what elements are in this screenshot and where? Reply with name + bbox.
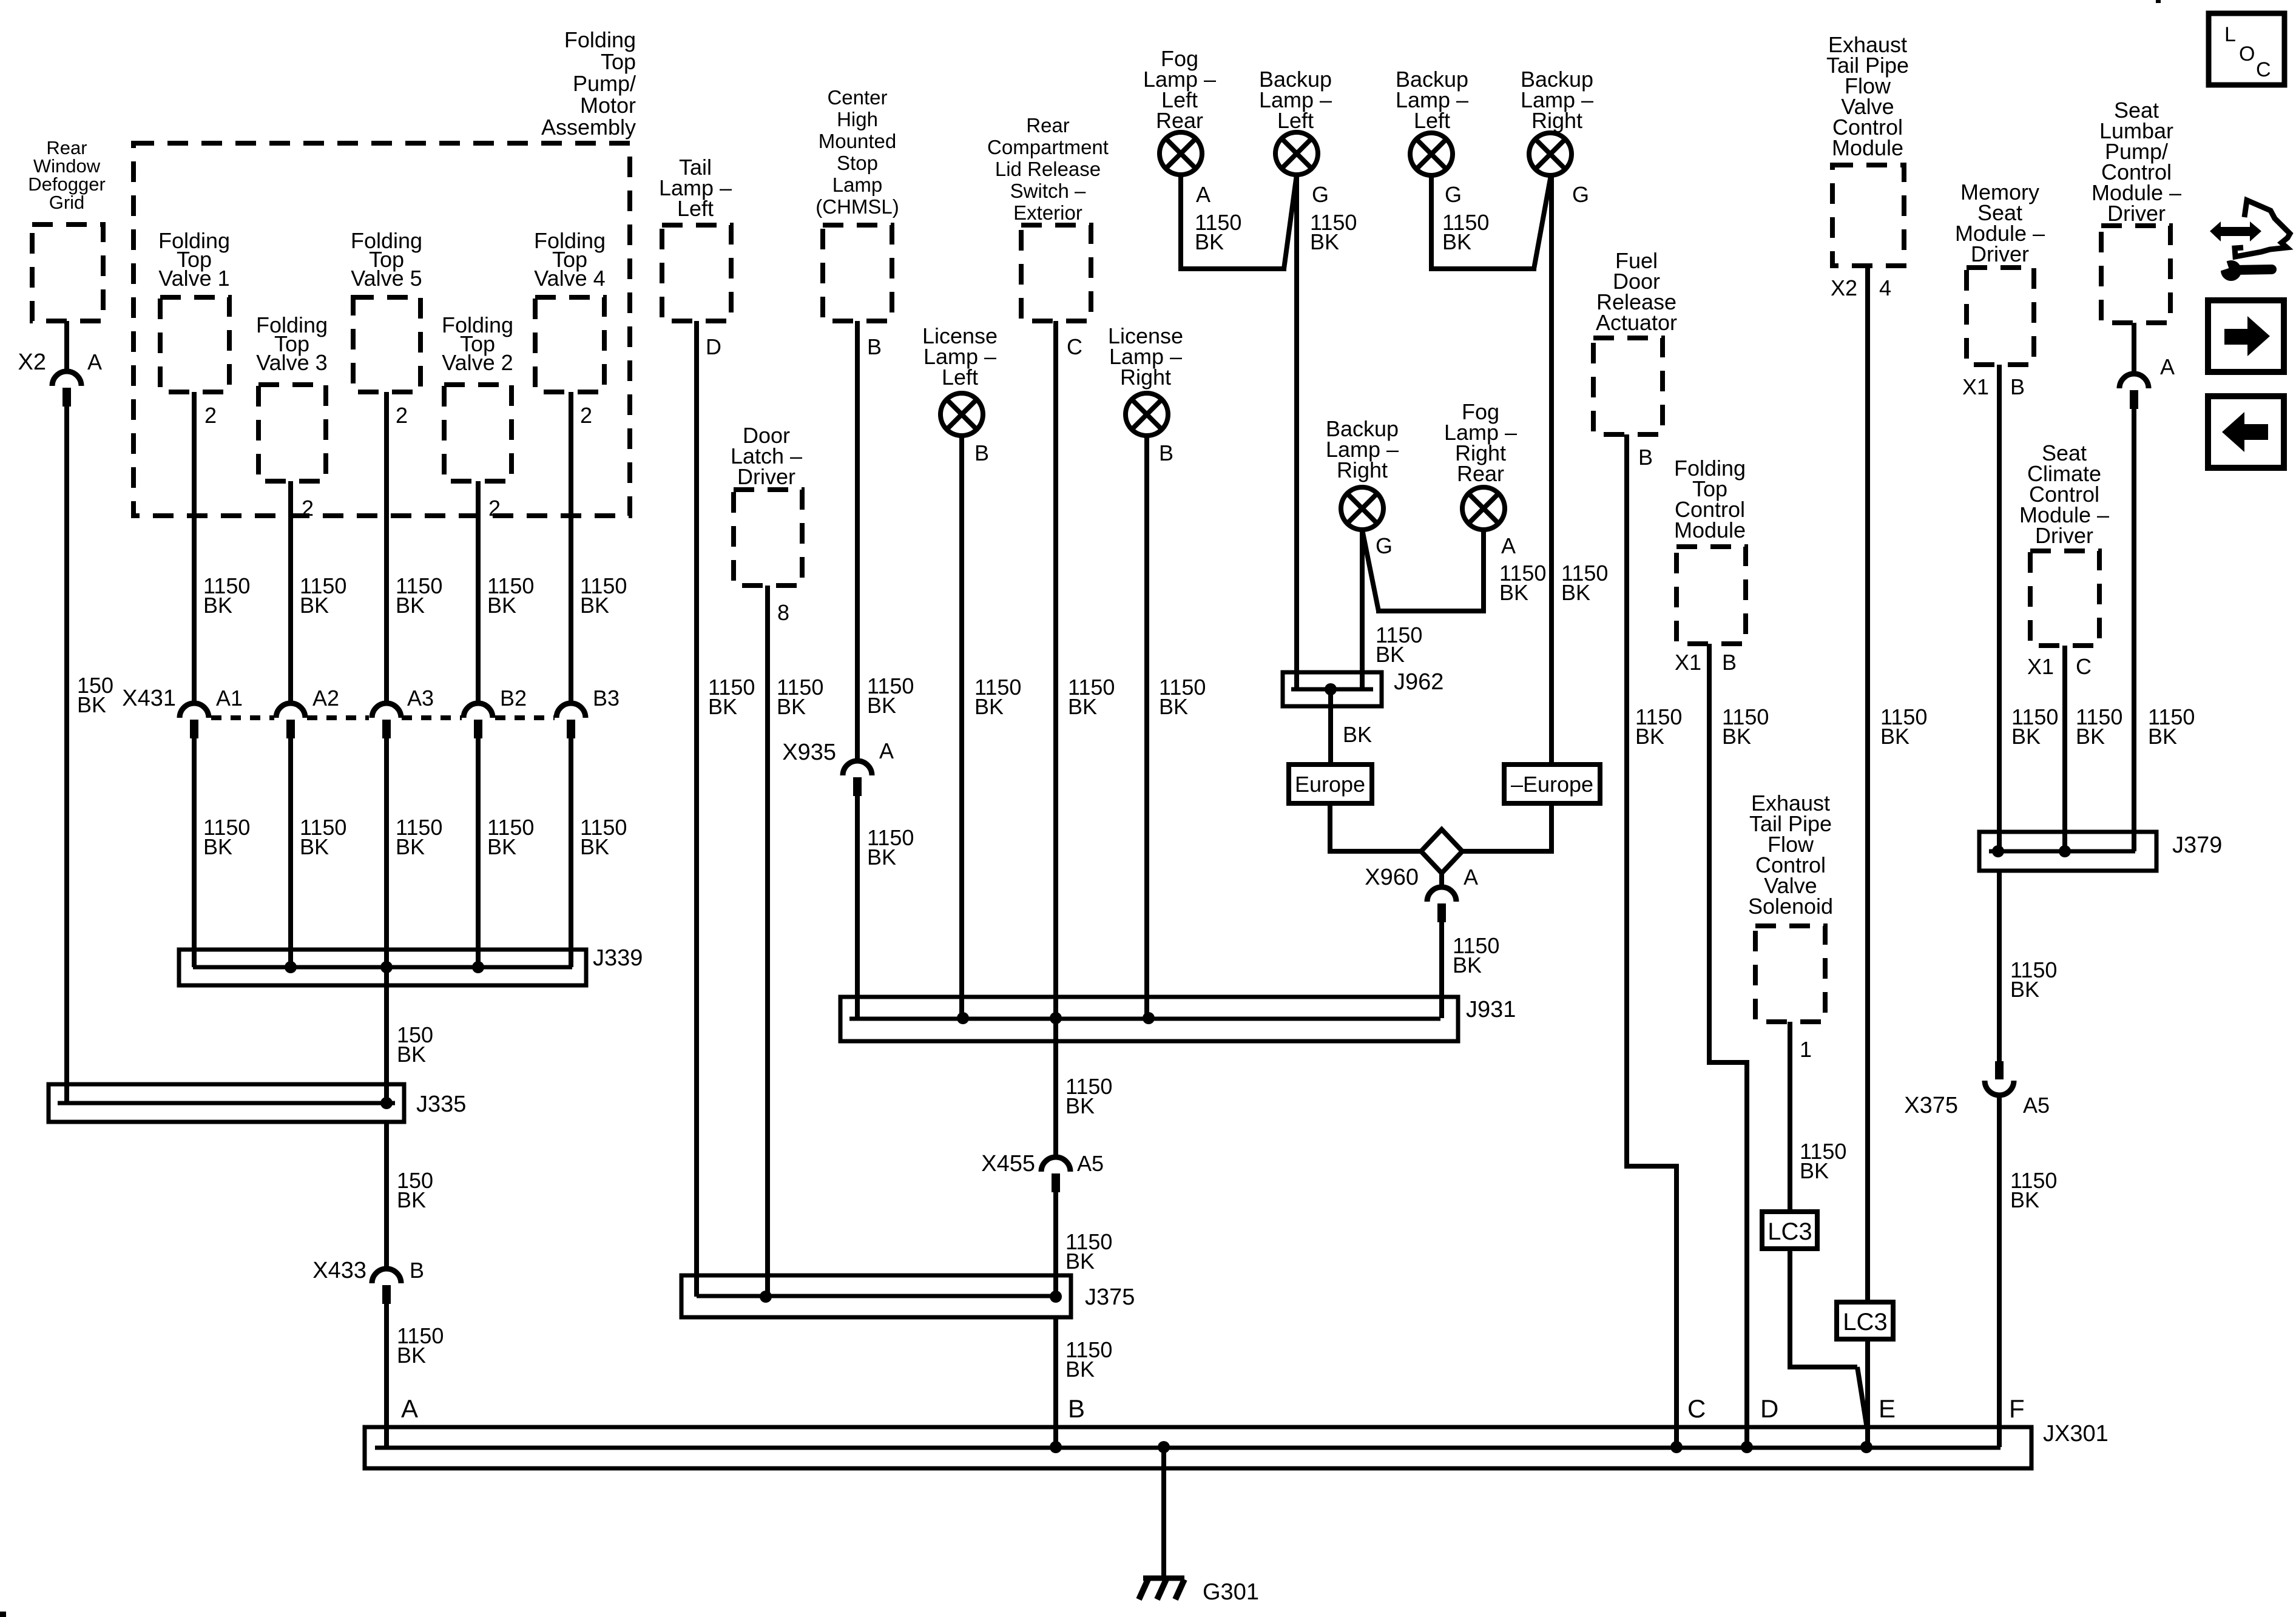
wire lumbar connector to J379 xyxy=(2132,408,2136,851)
connector X935 pin A xyxy=(782,738,894,796)
wire label 1150 BK below X935 xyxy=(867,825,914,869)
svg-text:BK: BK xyxy=(1442,229,1471,254)
lamp Backup Lamp - Left xyxy=(1275,132,1318,175)
wire labels 1150 BK above X431 xyxy=(203,573,627,618)
svg-text:J379: J379 xyxy=(2172,832,2222,858)
wire backup right2 to fog link xyxy=(1362,530,1486,611)
junction dots J339 xyxy=(285,961,484,973)
Backup Lamp - Left label xyxy=(1259,67,1332,133)
svg-text:B: B xyxy=(1722,650,1737,675)
svg-text:C: C xyxy=(1067,334,1082,359)
svg-text:1: 1 xyxy=(1800,1037,1812,1062)
connector X431 pin A1 xyxy=(180,686,243,738)
svg-text:Motor: Motor xyxy=(580,93,636,118)
svg-text:BK: BK xyxy=(1376,642,1405,667)
wire fog left rear elbow xyxy=(1178,175,1297,269)
inline connector LC3 on solenoid wire xyxy=(1762,1212,1817,1249)
svg-text:Stop: Stop xyxy=(837,152,878,174)
svg-text:BK: BK xyxy=(974,694,1004,719)
fog lamp left rear pin A xyxy=(1196,182,1210,207)
svg-text:Mounted: Mounted xyxy=(819,130,896,152)
splice J335 xyxy=(49,1084,466,1122)
connector X375 pin A5 xyxy=(1904,1061,2050,1118)
wire label BK J962 xyxy=(1343,722,1372,747)
svg-text:Actuator: Actuator xyxy=(1596,310,1677,335)
svg-text:Solenoid: Solenoid xyxy=(1748,894,1833,919)
wire backup right2 to J962 xyxy=(1360,530,1365,689)
bus letter E xyxy=(1879,1394,1896,1423)
Seat Climate Control Module box xyxy=(2030,551,2099,646)
svg-text:8: 8 xyxy=(777,600,789,625)
svg-text:BK: BK xyxy=(580,834,609,859)
wire LC3 to JX301-E xyxy=(1788,1249,1867,1428)
wire X935 to J931 xyxy=(855,795,860,1018)
svg-text:BK: BK xyxy=(300,834,329,859)
wire lumbar to connector xyxy=(2132,323,2136,374)
bus letter D xyxy=(1760,1394,1778,1423)
svg-text:Pump/: Pump/ xyxy=(573,71,636,96)
Folding Top Valve 2 box xyxy=(444,385,512,481)
svg-text:B: B xyxy=(1638,445,1653,470)
svg-text:Switch –: Switch – xyxy=(1010,180,1086,202)
-Europe option box xyxy=(1504,765,1600,803)
lumbar pin A xyxy=(2160,354,2175,379)
wire label 1150 BK below X455 xyxy=(1065,1229,1112,1274)
svg-text:J335: J335 xyxy=(416,1092,466,1117)
svg-text:X960: X960 xyxy=(1365,865,1419,890)
svg-text:J931: J931 xyxy=(1466,997,1516,1022)
svg-text:B: B xyxy=(867,334,882,359)
Center High Mounted Stop Lamp label xyxy=(815,86,899,218)
svg-text:A: A xyxy=(1464,865,1478,890)
svg-text:X433: X433 xyxy=(312,1258,366,1283)
wire J962 to Europe box xyxy=(1328,689,1333,766)
svg-text:BK: BK xyxy=(1065,1249,1095,1274)
svg-text:A: A xyxy=(1501,533,1516,558)
wire label 150 BK defogger xyxy=(77,673,113,717)
svg-text:Left: Left xyxy=(1414,108,1450,133)
Exhaust Tail Pipe Flow Control Valve Solenoid label xyxy=(1748,791,1833,919)
back arrow box xyxy=(2208,396,2284,468)
wire valve3 to X431-A2 xyxy=(288,481,293,703)
svg-text:Right: Right xyxy=(1337,457,1388,482)
wire label 1150 BK fuel door xyxy=(1635,704,1682,749)
option diamond X960 xyxy=(1421,829,1462,873)
wire label 1150 BK backup left2 xyxy=(1442,210,1489,254)
wire label 1150 BK fog left rear xyxy=(1195,210,1241,254)
svg-text:D: D xyxy=(1760,1394,1778,1423)
svg-text:BK: BK xyxy=(397,1042,426,1067)
lid release switch pin C xyxy=(1067,334,1082,359)
wire label 1150 BK folding top module xyxy=(1722,704,1769,749)
connector X433 pin B xyxy=(312,1258,424,1304)
svg-text:BK: BK xyxy=(397,1187,426,1212)
Rear Window Defogger Grid label xyxy=(28,137,106,213)
splice J962 xyxy=(1283,669,1443,706)
svg-text:BK: BK xyxy=(867,845,896,869)
svg-text:BK: BK xyxy=(2011,724,2041,749)
bus letter F xyxy=(2009,1394,2025,1423)
svg-text:BK: BK xyxy=(1800,1158,1829,1183)
valve 2 pin 2 xyxy=(488,496,501,521)
svg-text:BK: BK xyxy=(203,593,232,618)
svg-text:G: G xyxy=(1376,533,1393,558)
svg-text:2: 2 xyxy=(488,496,501,521)
svg-text:G: G xyxy=(1572,182,1589,207)
door latch pin 8 xyxy=(777,600,789,625)
svg-text:C: C xyxy=(2076,654,2092,679)
svg-text:Valve 3: Valve 3 xyxy=(256,350,327,375)
svg-text:High: High xyxy=(837,108,878,130)
lamp Fog Lamp - Right Rear xyxy=(1462,487,1505,530)
svg-text:LC3: LC3 xyxy=(1768,1218,1812,1245)
svg-text:X1: X1 xyxy=(2027,654,2054,679)
junction dots J931 xyxy=(957,1012,1155,1024)
wire exhaust module to JX301-E xyxy=(1865,266,1870,1447)
wire folding top module to JX301-D xyxy=(1707,644,1749,1447)
wire JX301 to ground xyxy=(1161,1447,1166,1578)
svg-text:X2: X2 xyxy=(1831,275,1857,300)
License Lamp - Right label xyxy=(1108,323,1183,390)
svg-text:G: G xyxy=(1312,182,1329,207)
wire X431-B3 to J339 xyxy=(569,738,573,967)
license lamp left pin B xyxy=(974,441,989,465)
svg-text:Right: Right xyxy=(1120,365,1171,390)
svg-text:BK: BK xyxy=(1195,229,1224,254)
forward arrow box xyxy=(2208,300,2284,372)
wire climate to J379 xyxy=(2062,646,2067,851)
svg-text:BK: BK xyxy=(1065,1093,1095,1118)
svg-text:BK: BK xyxy=(1499,580,1528,605)
svg-text:BK: BK xyxy=(2010,1187,2039,1212)
svg-text:Grid: Grid xyxy=(49,192,85,213)
svg-text:B2: B2 xyxy=(500,686,527,711)
bus letter B xyxy=(1068,1394,1085,1423)
Rear Compartment Lid Release Switch box xyxy=(1021,225,1091,321)
Fuel Door Release Actuator label xyxy=(1596,248,1677,335)
svg-text:X375: X375 xyxy=(1904,1093,1958,1118)
wire label 1150 BK memory seat xyxy=(2011,704,2058,749)
svg-text:BK: BK xyxy=(77,692,106,717)
svg-text:BK: BK xyxy=(396,834,425,859)
connector X431 pin B3 xyxy=(556,686,620,738)
wire license left to J931 xyxy=(959,436,964,1018)
svg-text:Compartment: Compartment xyxy=(987,136,1109,158)
splice J931 xyxy=(840,997,1516,1041)
Memory Seat Module - Driver label xyxy=(1955,180,2045,266)
svg-text:Exterior: Exterior xyxy=(1013,201,1082,224)
wire label 1150 BK door latch xyxy=(777,675,823,719)
wire X2 to J335 xyxy=(64,406,69,1103)
wire X433 to JX301-A xyxy=(384,1303,389,1447)
wire label 1150 BK license left xyxy=(974,675,1021,719)
svg-text:X1: X1 xyxy=(1675,650,1701,675)
svg-text:Left: Left xyxy=(1277,108,1314,133)
ground symbol G301 xyxy=(1139,1578,1259,1605)
svg-text:Lid Release: Lid Release xyxy=(995,158,1101,180)
license lamp right pin B xyxy=(1159,441,1173,465)
svg-text:B: B xyxy=(1159,441,1173,465)
svg-text:Driver: Driver xyxy=(737,464,795,489)
wire label 1150 BK X960 xyxy=(1453,933,1499,977)
svg-text:D: D xyxy=(706,334,721,359)
connector on lumbar wire xyxy=(2119,374,2149,409)
wire label 1150 BK below X375 xyxy=(2010,1168,2057,1212)
svg-text:Driver: Driver xyxy=(2107,201,2166,226)
svg-text:A5: A5 xyxy=(2023,1093,2050,1118)
svg-text:X431: X431 xyxy=(122,686,176,711)
svg-text:C: C xyxy=(2256,58,2271,81)
wire -Europe to X960 diamond xyxy=(1460,803,1554,851)
svg-text:Rear: Rear xyxy=(1457,461,1504,486)
svg-text:B: B xyxy=(1068,1394,1085,1423)
Rear Compartment Lid Release Switch - Exterior label xyxy=(987,114,1109,224)
wire defogger to X2 xyxy=(64,321,69,371)
svg-text:BK: BK xyxy=(580,593,609,618)
svg-text:BK: BK xyxy=(777,694,806,719)
svg-text:Module: Module xyxy=(1674,518,1746,542)
wire X431-A2 to J339 xyxy=(288,738,293,967)
svg-text:G301: G301 xyxy=(1203,1579,1259,1605)
svg-text:A: A xyxy=(401,1394,418,1423)
License Lamp - Left label xyxy=(922,323,998,390)
backup lamp left2 pin G xyxy=(1445,182,1462,207)
Seat Lumbar Pump/Control Module box xyxy=(2101,226,2170,323)
junction dots J375 xyxy=(760,1291,1062,1303)
wire label 1150 BK license right xyxy=(1159,675,1206,719)
svg-text:Top: Top xyxy=(601,49,636,74)
svg-text:Valve 4: Valve 4 xyxy=(534,266,605,291)
Exhaust Solenoid box xyxy=(1755,926,1825,1022)
wire label 1150 BK lid release xyxy=(1068,675,1115,719)
svg-text:Assembly: Assembly xyxy=(541,115,636,140)
tool/repair icon xyxy=(2210,200,2290,281)
svg-text:O: O xyxy=(2239,42,2255,66)
svg-text:Valve 1: Valve 1 xyxy=(158,266,229,291)
valve 1 pin 2 xyxy=(204,403,217,428)
svg-text:BK: BK xyxy=(1310,229,1339,254)
svg-text:2: 2 xyxy=(302,496,314,521)
svg-text:BK: BK xyxy=(1561,580,1590,605)
wire valve5 to X431-A3 xyxy=(384,392,389,703)
wire label 1150 BK lumbar xyxy=(2148,704,2195,749)
Europe option box xyxy=(1289,765,1372,803)
wire backup left2 elbow xyxy=(1429,175,1551,269)
svg-text:2: 2 xyxy=(580,403,592,428)
svg-text:X455: X455 xyxy=(981,1151,1035,1176)
svg-text:A2: A2 xyxy=(312,686,339,711)
svg-text:BK: BK xyxy=(1343,722,1372,747)
backup lamp left pin G xyxy=(1312,182,1329,207)
wire backup right to -Europe xyxy=(1549,175,1554,766)
wire J379 to X375 xyxy=(1997,871,2002,1061)
lamp License Lamp - Right xyxy=(1126,393,1168,436)
svg-text:X935: X935 xyxy=(782,740,836,765)
svg-text:Lamp: Lamp xyxy=(832,174,883,196)
svg-text:A: A xyxy=(87,349,102,374)
svg-text:BK: BK xyxy=(2148,724,2177,749)
solenoid pin 1 xyxy=(1800,1037,1812,1062)
svg-text:Valve 2: Valve 2 xyxy=(442,350,513,375)
wire lid release to J931 xyxy=(1053,321,1058,1018)
junction dot J962 xyxy=(1325,683,1337,695)
valve 4 pin 2 xyxy=(580,403,592,428)
Door Latch - Driver box xyxy=(734,490,802,586)
stray period bottom-left xyxy=(0,1612,6,1617)
svg-text:Folding: Folding xyxy=(564,27,636,52)
wire label 1150 BK above X375 xyxy=(2010,957,2057,1002)
lamp Backup Lamp - Right second xyxy=(1341,487,1383,530)
LOC legend box xyxy=(2209,13,2284,85)
connector X960 pin A xyxy=(1365,865,1478,922)
Backup Lamp - Right label xyxy=(1521,67,1593,133)
svg-text:A: A xyxy=(2160,354,2175,379)
svg-text:Left: Left xyxy=(942,365,978,390)
Folding Top Control Module box xyxy=(1676,547,1746,644)
Memory Seat Module box xyxy=(1967,268,2034,365)
svg-text:A5: A5 xyxy=(1077,1151,1104,1176)
wire label 1150 BK climate xyxy=(2076,704,2122,749)
svg-text:Driver: Driver xyxy=(1971,241,2029,266)
svg-text:A3: A3 xyxy=(407,686,434,711)
Folding Top Valve 2 label xyxy=(442,312,513,375)
folding top module pins X1 B xyxy=(1675,650,1737,675)
valve 5 pin 2 xyxy=(396,403,408,428)
Fuel Door Release Actuator box xyxy=(1593,338,1663,434)
wire X431-A1 to J339 xyxy=(192,738,197,967)
Folding Top Valve 5 box xyxy=(353,297,420,392)
svg-text:E: E xyxy=(1879,1394,1896,1423)
wire X455 to J375 xyxy=(1053,1192,1058,1297)
wire label 150 BK J335 to X433 xyxy=(397,1168,433,1212)
svg-text:A1: A1 xyxy=(216,686,243,711)
wire valve1 to X431-A1 xyxy=(192,392,197,703)
lamp Fog Lamp - Left Rear xyxy=(1160,132,1202,175)
svg-text:BK: BK xyxy=(1880,724,1909,749)
stray tick top-right xyxy=(2156,0,2161,3)
svg-text:Left: Left xyxy=(677,196,714,221)
wire label 1150 BK solenoid xyxy=(1800,1139,1846,1183)
wire fog right rear xyxy=(1481,530,1486,611)
svg-text:A: A xyxy=(1196,182,1210,207)
svg-text:Rear: Rear xyxy=(1026,114,1070,137)
Fog Lamp - Left Rear label xyxy=(1143,46,1216,133)
svg-text:Module: Module xyxy=(1832,135,1903,160)
svg-text:B: B xyxy=(2010,374,2025,399)
wire labels 1150 BK below X431 xyxy=(203,815,627,859)
splice J339 xyxy=(179,945,643,985)
svg-text:J339: J339 xyxy=(593,945,643,971)
connector X431 pin A3 xyxy=(372,686,434,738)
svg-text:Valve 5: Valve 5 xyxy=(351,266,422,291)
wire label 1150 BK exhaust module xyxy=(1880,704,1927,749)
bus letter C xyxy=(1687,1394,1706,1423)
junction dots JX301 xyxy=(1050,1441,1872,1453)
svg-text:BK: BK xyxy=(1068,694,1097,719)
svg-text:2: 2 xyxy=(204,403,217,428)
svg-text:BK: BK xyxy=(1453,953,1482,977)
wire fuel door to JX301-C xyxy=(1624,434,1679,1447)
wire J335 to X433 xyxy=(384,1122,389,1269)
backup lamp right pin G xyxy=(1572,182,1589,207)
svg-text:L: L xyxy=(2224,23,2236,46)
bus letter A xyxy=(401,1394,418,1423)
connector X431 label xyxy=(122,686,176,711)
wire memory seat to J379 xyxy=(1997,365,2002,851)
Backup Lamp - Left rear label xyxy=(1396,67,1468,133)
wire CHMSL to X935 xyxy=(855,321,860,761)
fog lamp right rear pin A xyxy=(1501,533,1516,558)
svg-text:BK: BK xyxy=(203,834,232,859)
Door Latch - Driver label xyxy=(731,423,802,489)
wire door latch to J375 xyxy=(765,586,770,1297)
svg-text:4: 4 xyxy=(1879,275,1891,300)
splice J379 xyxy=(1979,832,2222,871)
Backup Lamp - Right rear label xyxy=(1326,416,1399,482)
wire diamond to X960 xyxy=(1439,871,1444,887)
wire X431-B2 to J339 xyxy=(476,738,481,967)
wire license right to J931 xyxy=(1144,436,1149,1018)
svg-text:–Europe: –Europe xyxy=(1511,772,1593,797)
exhaust module pins X2 4 xyxy=(1831,275,1891,300)
wire label 1150 BK X433 to JX301 xyxy=(397,1323,444,1368)
memory seat pins X1 B xyxy=(1962,374,2025,399)
Folding Top Pump/Motor Assembly label xyxy=(541,27,636,140)
wire J375 to JX301-B xyxy=(1053,1317,1058,1447)
Tail Lamp - Left label xyxy=(659,155,732,221)
svg-text:BK: BK xyxy=(708,694,737,719)
wire label 1150 BK backup right xyxy=(1561,561,1608,605)
Folding Top Valve 1 box xyxy=(160,297,229,392)
inline connector LC3 on module wire xyxy=(1837,1302,1893,1339)
svg-text:LC3: LC3 xyxy=(1843,1309,1887,1335)
wire label 1150 BK below J375 xyxy=(1065,1337,1112,1382)
svg-text:BK: BK xyxy=(867,693,896,718)
Exhaust Tail Pipe Flow Valve Control Module label xyxy=(1826,32,1909,160)
CHMSL pin B xyxy=(867,334,882,359)
svg-text:F: F xyxy=(2009,1394,2025,1423)
Folding Top Valve 4 label xyxy=(534,228,606,291)
wire valve2 to X431-B2 xyxy=(476,481,481,703)
wire label 1150 BK backup right2 xyxy=(1376,623,1422,667)
svg-text:BK: BK xyxy=(2010,977,2039,1002)
svg-text:B: B xyxy=(410,1258,424,1283)
svg-text:J375: J375 xyxy=(1085,1284,1135,1310)
CHMSL box xyxy=(823,225,892,321)
svg-text:C: C xyxy=(1687,1394,1706,1423)
climate pins X1 C xyxy=(2027,654,2092,679)
wire solenoid to LC3 xyxy=(1788,1022,1792,1212)
svg-text:Right: Right xyxy=(1531,108,1582,133)
connector X431 pin A2 xyxy=(276,686,339,738)
lamp Backup Lamp - Right xyxy=(1529,133,1572,175)
wire J931 to X455 xyxy=(1053,1018,1058,1157)
Seat Lumbar Pump/Control Module - Driver label xyxy=(2092,98,2181,226)
wire label 150 BK J339 to J335 xyxy=(397,1022,433,1067)
Rear Window Defogger Grid box xyxy=(32,224,103,321)
svg-text:B: B xyxy=(974,441,989,465)
junction dot J335 xyxy=(380,1097,393,1109)
svg-text:Center: Center xyxy=(827,86,887,109)
svg-text:X2: X2 xyxy=(18,349,46,375)
Folding Top Valve 4 box xyxy=(535,297,604,392)
connector X431 pin B2 xyxy=(464,686,527,738)
svg-text:BK: BK xyxy=(300,593,329,618)
Fog Lamp - Right Rear label xyxy=(1444,399,1517,486)
svg-text:BK: BK xyxy=(396,593,425,618)
svg-text:BK: BK xyxy=(487,593,516,618)
Folding Top Valve 1 label xyxy=(158,228,230,291)
